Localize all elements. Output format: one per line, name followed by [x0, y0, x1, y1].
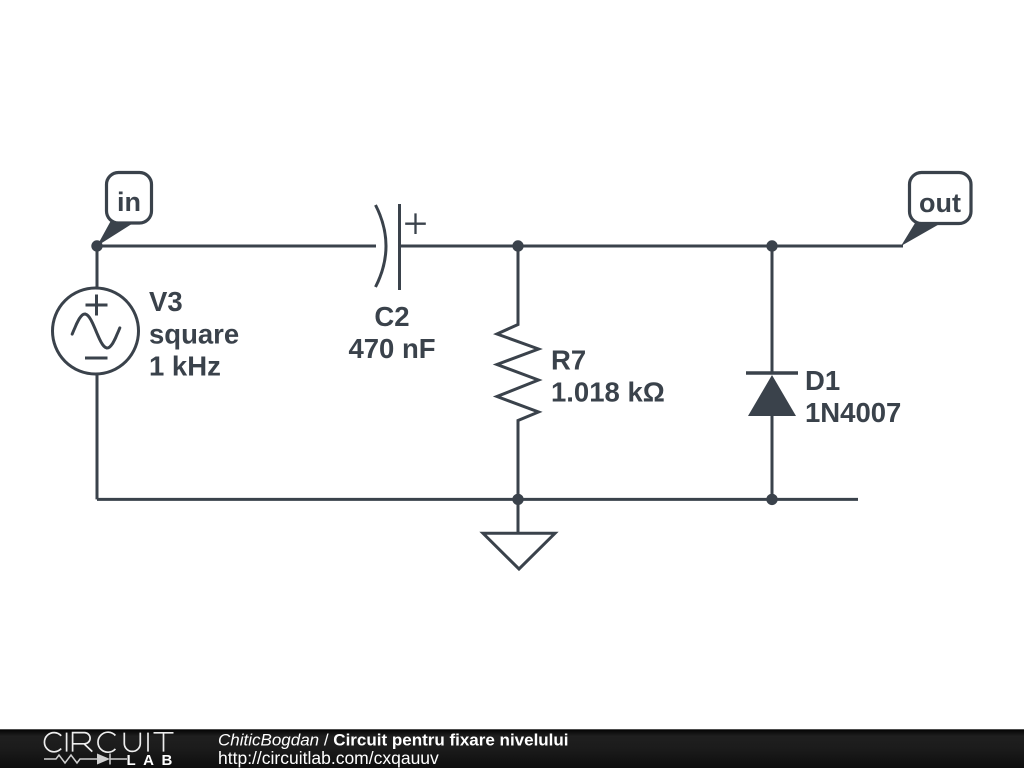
- svg-text:ChiticBogdan / Circuit pentru: ChiticBogdan / Circuit pentru fixare niv…: [218, 731, 569, 750]
- svg-text:1.018 kΩ: 1.018 kΩ: [551, 377, 665, 408]
- svg-text:in: in: [117, 187, 141, 217]
- svg-text:1 kHz: 1 kHz: [149, 351, 221, 382]
- svg-text:C2: C2: [374, 301, 409, 332]
- svg-text:1N4007: 1N4007: [805, 397, 901, 428]
- svg-text:R7: R7: [551, 345, 586, 376]
- svg-text:470 nF: 470 nF: [348, 333, 435, 364]
- svg-text:http://circuitlab.com/cxqauuv: http://circuitlab.com/cxqauuv: [218, 748, 439, 768]
- svg-text:LAB: LAB: [127, 752, 180, 768]
- svg-text:D1: D1: [805, 365, 840, 396]
- svg-text:out: out: [919, 188, 961, 218]
- svg-text:V3: V3: [149, 286, 183, 317]
- svg-text:square: square: [149, 319, 239, 350]
